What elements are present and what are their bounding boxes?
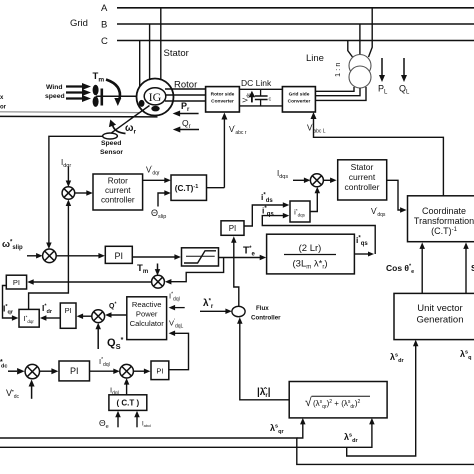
block PI reactive B xyxy=(60,303,76,328)
svg-text:PI: PI xyxy=(65,306,72,315)
svg-text:Grid side: Grid side xyxy=(289,92,310,98)
arrow Q_S* into S5 xyxy=(97,328,99,349)
wire V_dqL from PI dc2 to RPC xyxy=(169,333,189,369)
wire stator drop from A xyxy=(160,8,162,86)
block PI torque xyxy=(221,221,244,236)
wire S2 to PI speed xyxy=(56,255,99,257)
converter U1 rotor side box xyxy=(206,87,240,112)
svg-text:Flux: Flux xyxy=(256,305,269,312)
converter U2 grid side box xyxy=(282,87,315,112)
wire DC bus top xyxy=(239,88,282,90)
svg-text:dc: dc xyxy=(1,364,7,370)
wire i*_dqs to stator summer xyxy=(310,192,317,212)
block PI speed regulator xyxy=(105,246,132,263)
svg-text:Converter: Converter xyxy=(211,99,234,105)
arrow I_dqs into stator summer xyxy=(293,179,305,181)
summing junction S7 dc current xyxy=(120,364,134,378)
svg-text:Unit vector: Unit vector xyxy=(417,303,462,314)
arrow lambda*_r into flux controller xyxy=(200,310,227,312)
platform bottom line xyxy=(0,115,158,118)
summing junction S3 stator current xyxy=(310,174,323,187)
svg-text:( C.T ): ( C.T ) xyxy=(116,399,139,408)
svg-text:Iabcl: Iabcl xyxy=(142,422,151,429)
svg-text:controller: controller xyxy=(101,196,135,205)
arrow Q_L xyxy=(403,58,405,76)
summing junction S1 rotor current xyxy=(62,187,75,200)
svg-text:Transformation: Transformation xyxy=(414,216,474,226)
rotor slip-ring dot 2 xyxy=(151,106,159,112)
arrow unit vector to CT 2 xyxy=(465,248,467,294)
svg-text:current: current xyxy=(349,172,376,182)
wire lambda_qr riser to sqrt block xyxy=(297,423,303,438)
arrow Q_r xyxy=(180,129,199,131)
arrow I_abcl into CT xyxy=(136,416,138,427)
svg-text:Wind: Wind xyxy=(46,84,63,91)
block CT-inverse rotor xyxy=(171,175,207,200)
arrow I*_dql into RPC xyxy=(174,307,185,309)
block coordinate transformation CT-inverse stator xyxy=(408,196,474,242)
wire PI A down to I*_qr xyxy=(3,286,14,319)
wire phase B bus xyxy=(117,23,474,25)
wire lambda_qr bus xyxy=(0,438,474,464)
svg-text:|λ̂r|: |λ̂r| xyxy=(257,387,271,399)
wire flux PI input riser xyxy=(234,242,239,307)
wire PI speed to limiter xyxy=(132,256,175,258)
wire Q* from RPC to S5 xyxy=(111,314,127,316)
wire I*_dqr output to rotor current summer xyxy=(29,205,69,310)
wire S4 to PI reactive A xyxy=(33,281,152,283)
wire stator controller to CT block xyxy=(387,180,401,210)
wire i*_qs from divide block xyxy=(354,253,368,255)
svg-text:Calculator: Calculator xyxy=(130,319,165,328)
svg-text:(2 Lr): (2 Lr) xyxy=(299,243,322,254)
speed sensor ellipse xyxy=(103,133,118,139)
svg-text:Rotor side: Rotor side xyxy=(211,92,235,98)
svg-text:Speed: Speed xyxy=(101,140,121,147)
wind arrow 1 xyxy=(66,85,83,87)
block torque-to-current divide xyxy=(267,234,355,274)
svg-text:Stator: Stator xyxy=(351,162,374,172)
wire PI dc1 to S7 xyxy=(90,370,114,372)
wire S6 to PI dc1 xyxy=(40,370,52,372)
svg-text:Sensor: Sensor xyxy=(100,149,123,156)
svg-text:Grid: Grid xyxy=(70,18,88,29)
omega_r curved arrow xyxy=(113,125,126,134)
wire lambda_dr branch to unit vector xyxy=(347,345,416,456)
arrow P_L xyxy=(381,58,383,76)
block PI dc1 xyxy=(59,361,90,381)
arrow P_r xyxy=(179,113,199,115)
svg-text:Reactive: Reactive xyxy=(132,300,162,309)
arrow omega_slip_ref into summer xyxy=(27,255,37,257)
wire transformer drop from A xyxy=(369,8,373,57)
arrow theta_e into CT xyxy=(117,416,119,427)
svg-text:controller: controller xyxy=(345,182,380,192)
flux controller ellipse xyxy=(232,306,245,316)
block flux magnitude sqrt xyxy=(289,382,387,418)
turbine hub bar xyxy=(101,89,104,106)
block torque limiter saturation xyxy=(182,248,219,266)
wire theta_slip into CT-inverse xyxy=(158,193,165,207)
turbine blade lower xyxy=(93,96,99,107)
summing junction S5 reactive xyxy=(92,310,105,323)
svg-text:current: current xyxy=(105,186,131,195)
wire PI B to I*_dqr xyxy=(46,317,61,319)
svg-text:Rotor: Rotor xyxy=(108,177,128,186)
block PI dc2 xyxy=(151,361,169,380)
wire transformer secondary b xyxy=(316,88,360,96)
wire flux magnitude feedback xyxy=(240,323,289,400)
arrow I_dql into S7 xyxy=(126,384,128,395)
shaft wire xyxy=(96,95,145,97)
svg-text:Coordinate: Coordinate xyxy=(422,206,466,216)
svg-text:C: C xyxy=(101,36,108,47)
wire controller to CT-inverse xyxy=(143,179,166,181)
svg-text:1 : n: 1 : n xyxy=(333,62,342,77)
wire phase C bus xyxy=(117,40,474,42)
arrow V*_dc into S6 xyxy=(8,370,17,372)
summing junction S6 dc volts xyxy=(25,364,39,378)
wire V_abc_L to grid converter xyxy=(314,118,444,196)
summing junction S4 torque xyxy=(152,275,165,288)
summing junction S2 slip speed xyxy=(43,249,57,263)
svg-text:PI: PI xyxy=(70,366,79,376)
wire T*e to divide block xyxy=(219,257,262,259)
svg-text:DC Link: DC Link xyxy=(241,78,272,88)
svg-text:or: or xyxy=(0,105,7,111)
capacitor C dc-link xyxy=(260,89,262,96)
wire lambda_dr bus xyxy=(0,423,372,447)
block PI reactive A xyxy=(6,275,26,289)
svg-text:Stator: Stator xyxy=(164,48,189,59)
T_m curved arrow xyxy=(106,80,120,100)
svg-text:Controller: Controller xyxy=(251,315,281,322)
svg-text:PI: PI xyxy=(229,224,237,233)
block rotor current controller xyxy=(93,174,143,210)
wire DC bus bottom xyxy=(239,105,282,107)
wire V_abc_r to rotor converter xyxy=(223,118,225,188)
wire limiter path into S4 xyxy=(171,258,224,282)
arrow I_dqr into summer xyxy=(67,167,69,183)
svg-text:PI: PI xyxy=(115,251,124,261)
generator IG inner circle xyxy=(144,88,166,105)
svg-text:Generation: Generation xyxy=(416,315,463,326)
generator IG outer circle xyxy=(137,79,174,116)
svg-text:A: A xyxy=(101,3,108,14)
transformer T1 winding 1 xyxy=(349,55,371,77)
block I*_dqr combiner xyxy=(19,309,39,327)
rotor slip-ring dot 1 xyxy=(139,100,145,107)
block i*_dqs combiner xyxy=(290,201,310,222)
block CT abc-to-dq xyxy=(109,395,147,411)
transformer T1 winding 2 xyxy=(349,66,371,88)
wire speed sensor feedback xyxy=(49,136,103,242)
svg-text:PI: PI xyxy=(156,367,163,376)
wire transformer drop from C xyxy=(348,41,353,58)
wind arrow 3 xyxy=(66,97,83,99)
block unit vector generation xyxy=(394,293,474,339)
wire shaft to speed sensor xyxy=(112,106,150,133)
wire S7 to PI dc2 xyxy=(133,370,145,372)
wire stator drop from C xyxy=(139,41,141,90)
wire transformer secondary a xyxy=(316,87,354,91)
wire S3 to stator controller xyxy=(323,179,331,181)
svg-text:Power: Power xyxy=(136,310,158,319)
wire CT-inverse output to V_abc_r riser xyxy=(207,187,225,189)
wire S1 to rotor current controller xyxy=(75,192,88,194)
svg-text:c: c xyxy=(269,97,272,103)
svg-text:speed: speed xyxy=(45,93,65,100)
block stator current controller xyxy=(338,160,387,200)
arrow V_dc measurement xyxy=(251,96,253,103)
svg-text:B: B xyxy=(101,20,107,31)
wire transformer drop from B xyxy=(359,24,361,56)
svg-text:IG: IG xyxy=(149,90,162,104)
wire transformer secondary c xyxy=(316,87,366,100)
wind arrow 2 xyxy=(66,91,83,93)
turbine blade upper xyxy=(93,85,99,96)
platform grey line xyxy=(0,111,140,114)
arrow unit vector to CT 1 xyxy=(421,248,423,294)
wire PI torque out to i*_ds xyxy=(244,205,284,226)
wire S5 to PI B xyxy=(82,315,92,317)
wire stator drop from B xyxy=(149,24,151,88)
wire rotor phase 2 xyxy=(166,94,206,96)
arrow T_m into S4 xyxy=(157,264,159,272)
block reactive power calculator xyxy=(127,297,167,340)
wire rotor phase 1 xyxy=(165,88,206,90)
svg-text:√: √ xyxy=(305,395,312,409)
svg-text:Converter: Converter xyxy=(288,99,311,105)
wire rotor phase 3 xyxy=(165,100,206,102)
arrow V_dc feedback into S6 xyxy=(31,385,33,399)
svg-text:Line: Line xyxy=(306,53,324,64)
wire phase A bus xyxy=(117,7,474,9)
svg-text:PI: PI xyxy=(13,278,20,287)
